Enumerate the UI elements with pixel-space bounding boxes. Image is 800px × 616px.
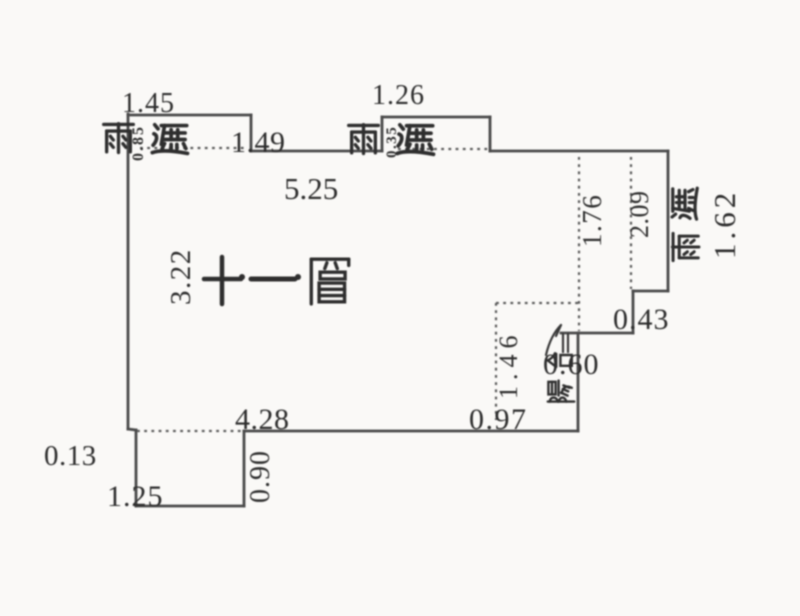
canopy C1 top edge [128, 114, 251, 117]
separator dot [295, 274, 301, 280]
canopy C2 top edge [382, 116, 490, 119]
svg-text:1.46: 1.46 [494, 330, 523, 400]
svg-text:1.49: 1.49 [231, 126, 286, 159]
svg-text:0.43: 0.43 [613, 303, 670, 336]
svg-text:1.45: 1.45 [122, 88, 175, 119]
char 層 [311, 259, 348, 304]
top wall right segment [490, 150, 668, 153]
notch right wall [243, 431, 246, 506]
balcony top wall [561, 332, 633, 335]
top wall segment between canopies [251, 150, 382, 153]
left wall [127, 114, 130, 429]
svg-text:0.85: 0.85 [130, 125, 147, 161]
canopy C2 left edge [381, 117, 384, 151]
char 十 [204, 277, 241, 282]
dotted vertical 2.09 [630, 157, 632, 289]
notch jog [128, 429, 136, 430]
balcony leader arrow [546, 325, 568, 355]
svg-text:3.22: 3.22 [165, 248, 197, 305]
separator dot [239, 274, 245, 280]
label 陽台 balcony rotated [548, 353, 574, 401]
notch left wall [135, 430, 138, 506]
dotted canopy C2 bottom [398, 148, 488, 150]
balcony right wall [577, 333, 580, 431]
dotted canopy C1 bottom [140, 147, 246, 149]
dotted vertical 1.76 [578, 157, 580, 331]
char 一 [251, 277, 295, 282]
svg-text:2.09: 2.09 [625, 191, 654, 239]
bottom wall [244, 430, 578, 433]
svg-text:1.62: 1.62 [707, 189, 742, 259]
dotted vertical 1.46 [495, 303, 497, 420]
svg-text:0.90: 0.90 [245, 450, 276, 503]
notch bottom wall [136, 505, 244, 508]
canopy C1 right edge [250, 115, 253, 151]
svg-text:0.97: 0.97 [469, 403, 528, 436]
label 雨遮 right side rotated [672, 188, 699, 260]
step horizontal [633, 290, 668, 293]
svg-text:0.13: 0.13 [44, 440, 97, 472]
svg-text:1.25: 1.25 [107, 480, 164, 513]
svg-text:1.76: 1.76 [577, 194, 607, 247]
label 雨遮 canopy C1 [104, 124, 134, 153]
dotted balcony top [496, 302, 578, 304]
canopy C2 right edge [489, 117, 492, 151]
step vertical [632, 291, 635, 333]
svg-text:5.25: 5.25 [284, 171, 338, 206]
label 雨遮 canopy C2 [349, 125, 379, 154]
dotted notch top [137, 430, 243, 432]
svg-text:4.28: 4.28 [235, 403, 290, 436]
right wall [667, 151, 670, 291]
svg-text:1.26: 1.26 [372, 80, 425, 111]
